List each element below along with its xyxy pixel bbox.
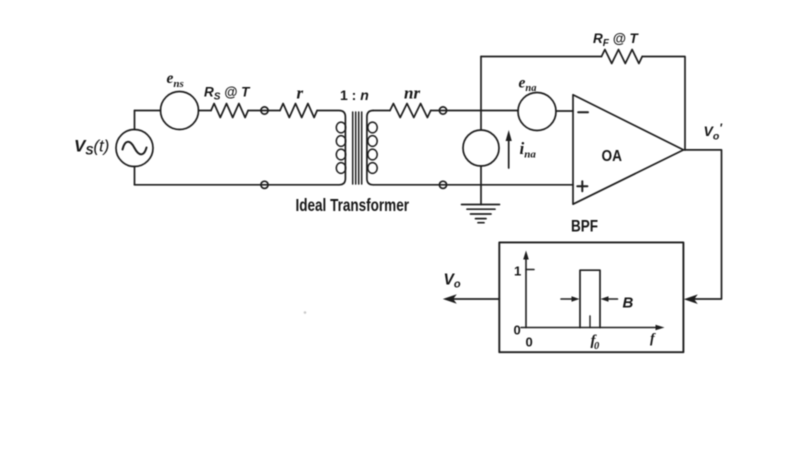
node D (bottom) — [439, 181, 446, 188]
arrowhead into BPF right side — [684, 294, 698, 304]
svg-text:VS(t): VS(t) — [74, 137, 109, 158]
BPF plot x-axis — [521, 327, 659, 329]
sine symbol of VS(t) — [123, 142, 147, 155]
wire transformer secondary bottom to node D — [373, 184, 573, 186]
wire bottom: VS to transformer — [135, 184, 340, 186]
wire e_na to op-amp inverting input — [556, 110, 573, 112]
transformer primary winding loops — [336, 122, 345, 133]
ground — [462, 204, 500, 206]
svg-text:Vo: Vo — [444, 272, 461, 291]
svg-text:f: f — [650, 332, 656, 347]
B width right arrow — [606, 298, 618, 300]
svg-text:r: r — [297, 84, 304, 103]
svg-text:1: 1 — [514, 264, 521, 279]
wire secondary top to nr — [373, 110, 390, 112]
resistor RS — [211, 104, 248, 118]
resistor RF — [602, 50, 643, 64]
BPF plot tick at 1 — [526, 269, 534, 271]
svg-text:Vo′: Vo′ — [704, 123, 724, 143]
svg-text:BPF: BPF — [571, 218, 598, 236]
transformer secondary winding loops — [368, 122, 377, 133]
svg-text:OA: OA — [602, 148, 623, 165]
wire r to transformer primary — [317, 111, 345, 185]
f0 tick — [589, 316, 591, 328]
resistor r — [280, 104, 317, 118]
wire current source bottom to ground — [480, 166, 482, 205]
wire op-amp output to V_o' then down to BPF — [684, 150, 722, 299]
noise source e_na — [518, 93, 556, 131]
wire RS to node A — [248, 110, 280, 112]
B width left arrow — [561, 298, 574, 300]
feedback wire right down to output — [642, 57, 685, 151]
BPF passband pulse — [580, 270, 600, 327]
op-amp OA — [573, 95, 684, 205]
BPF box — [499, 242, 683, 352]
svg-text:nr: nr — [404, 84, 420, 103]
transformer core lines — [352, 112, 354, 184]
svg-text:RF @ T: RF @ T — [593, 31, 640, 49]
svg-text:Ideal Transformer: Ideal Transformer — [296, 195, 410, 215]
resistor nr — [390, 104, 431, 118]
current source i_na circle — [463, 130, 499, 166]
wire VS top stub — [134, 111, 136, 130]
svg-text:RS @ T: RS @ T — [204, 85, 251, 103]
wire VS bottom stub — [134, 167, 136, 185]
svg-text:ina: ina — [520, 139, 537, 161]
svg-text:0: 0 — [514, 323, 521, 338]
op-amp plus pin — [577, 181, 587, 191]
voltage source VS(t) — [116, 130, 153, 167]
node B (top) — [439, 107, 446, 114]
wire top: VS to e_ns — [135, 110, 161, 112]
svg-text:1 : n: 1 : n — [340, 87, 369, 103]
V_o arrowhead — [443, 294, 457, 304]
wire e_ns to RS — [199, 110, 212, 112]
V_o output arrow wire — [449, 298, 499, 300]
op-amp minus pin — [578, 111, 588, 113]
i_na arrow — [508, 137, 510, 168]
svg-text:0: 0 — [526, 335, 533, 350]
feedback wire top — [481, 56, 602, 58]
node C (bottom) — [261, 181, 268, 188]
svg-text:B: B — [623, 295, 634, 312]
svg-text:ens: ens — [167, 70, 184, 90]
svg-text:ena: ena — [519, 75, 537, 95]
wire current source top to top wire and feedback — [480, 57, 482, 131]
node A (top) — [261, 107, 268, 114]
scan speck — [304, 311, 307, 314]
wire nr to node B — [431, 110, 518, 112]
BPF plot y-axis — [525, 256, 527, 328]
transformer secondary vertical and leads — [367, 111, 373, 185]
noise source e_ns — [161, 92, 199, 130]
svg-text:f0: f0 — [591, 333, 601, 352]
